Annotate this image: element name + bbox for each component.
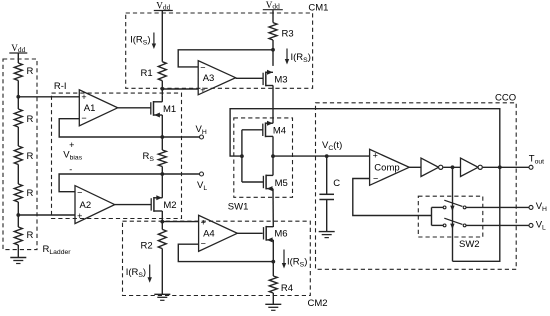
svg-text:Vdd: Vdd	[11, 43, 25, 54]
svg-text:A3: A3	[203, 73, 215, 84]
current arrow I(RS) through M6	[282, 250, 286, 269]
svg-text:+: +	[81, 92, 86, 102]
current arrow I(RS) into R1	[152, 33, 156, 50]
wire Vdd to R3	[272, 10, 274, 23]
svg-text:Comp: Comp	[374, 163, 399, 174]
wire Vdd to R1	[161, 11, 163, 62]
svg-text:R: R	[27, 188, 34, 199]
capacitor C	[319, 156, 340, 232]
transistor M1	[151, 101, 176, 118]
switch SW2b (VL)	[443, 218, 466, 229]
svg-text:+: +	[373, 151, 378, 161]
transistor M5	[263, 175, 287, 192]
op-amp A1	[79, 90, 117, 126]
svg-text:R3: R3	[282, 29, 294, 40]
svg-text:+: +	[77, 211, 82, 221]
wire R3 to M3 drain	[272, 40, 274, 66]
wire R4 to ground	[272, 293, 274, 304]
svg-text:M3: M3	[274, 74, 287, 85]
wire Comp - feedback to SW2 common	[353, 179, 432, 216]
wire ladder R1-R2 with tap node A	[17, 81, 19, 110]
svg-text:M4: M4	[273, 125, 286, 136]
wire M3 source to M4 drain	[272, 85, 274, 123]
wire A4 output to M6 gate	[237, 232, 262, 234]
ground (capacitor)	[319, 232, 335, 238]
terminal Tout	[529, 165, 533, 169]
node capacitor tap	[325, 154, 329, 158]
svg-text:R: R	[27, 151, 34, 162]
svg-text:−: −	[201, 239, 206, 249]
wire M4 source to SW1 output node	[272, 136, 274, 156]
wire M2 drain to VL node	[161, 174, 163, 198]
svg-text:R2: R2	[141, 240, 153, 251]
wire control loop (Tout node to SW1 gates)	[230, 109, 500, 168]
svg-text:CM1: CM1	[308, 2, 328, 13]
svg-text:−: −	[77, 188, 82, 198]
svg-text:R1: R1	[141, 68, 153, 79]
svg-text:I(RS): I(RS)	[287, 257, 307, 269]
svg-text:M1: M1	[163, 104, 176, 115]
comparator Comp	[370, 149, 410, 185]
wire tap1 to A1 + input	[18, 96, 79, 98]
wire VH node to RS	[161, 137, 163, 150]
SW1 dashed box	[234, 118, 293, 197]
svg-text:R-I: R-I	[54, 81, 67, 92]
resistor R1	[141, 62, 167, 81]
op-amp A3	[198, 61, 235, 95]
svg-text:CM2: CM2	[308, 298, 328, 309]
wire A1 output to M1 gate	[118, 107, 151, 109]
wire R2 to ground	[161, 249, 163, 295]
resistor R (ladder 5)	[14, 227, 33, 245]
svg-text:+: +	[200, 85, 205, 95]
resistor R4	[269, 276, 293, 294]
svg-text:SW1: SW1	[228, 202, 249, 213]
svg-text:A1: A1	[84, 103, 96, 114]
svg-text:M6: M6	[274, 229, 287, 240]
wire A2 output to M2 gate	[115, 204, 152, 206]
wire A3 feedback (node to - input)	[178, 50, 273, 67]
svg-text:Vdd: Vdd	[266, 0, 280, 11]
ground (R2)	[154, 294, 170, 300]
transistor M4	[263, 121, 286, 138]
svg-text:−: −	[373, 174, 378, 184]
ground (ladder)	[10, 258, 26, 264]
wire M1 drain stub	[161, 95, 163, 102]
resistor R (ladder 2)	[14, 109, 33, 127]
svg-text:R4: R4	[281, 283, 293, 294]
node R1 bottom / A3 + tap	[160, 87, 164, 91]
transistor M3	[263, 70, 288, 87]
wire M1 source to VH rail	[161, 115, 163, 137]
resistor R (ladder 3)	[14, 146, 33, 165]
CM2 dashed box	[123, 221, 311, 295]
node tap1	[16, 95, 20, 99]
resistor R2	[141, 229, 167, 251]
wire R1 to M1 drain	[161, 81, 163, 96]
wire A2 - feedback from VL rail	[59, 174, 199, 192]
transistor M6	[264, 226, 288, 243]
node inverter junction / SW2 control tap	[451, 165, 455, 169]
node M2 source / A4 + tap	[160, 220, 164, 224]
svg-text:CCO: CCO	[495, 92, 516, 103]
R-I dashed box	[52, 93, 182, 218]
wire control loop bottom	[453, 167, 500, 261]
wire Comp output to inverter 1	[409, 166, 421, 168]
svg-text:I(RS): I(RS)	[130, 35, 150, 47]
wire Vdd to ladder top	[17, 53, 19, 63]
terminal VL (left)	[200, 172, 204, 176]
terminal VH (left)	[200, 135, 204, 139]
wire M6 source down	[272, 240, 274, 276]
wire ladder R4-R5 with tap node B	[17, 202, 19, 227]
node VL / RS bottom	[160, 172, 164, 176]
current arrow I(RS) into M3	[285, 49, 289, 65]
svg-text:C: C	[333, 178, 340, 189]
wire M2 source to R2 node	[161, 211, 163, 229]
svg-text:+: +	[201, 217, 206, 227]
wire A4 - feedback to M6 source node	[178, 244, 273, 261]
svg-text:R: R	[27, 230, 34, 241]
svg-text:+: +	[69, 140, 74, 150]
svg-text:R: R	[27, 114, 34, 125]
wire inverter 1 to inverter 2	[443, 166, 460, 168]
svg-text:I(RS): I(RS)	[291, 52, 311, 64]
resistor RS	[143, 150, 167, 167]
wire SW1 node to M5 drain	[272, 156, 274, 175]
wire RS to VL node	[161, 167, 163, 175]
transistor M2	[151, 195, 176, 212]
wire A3 output to M3 gate	[236, 77, 263, 79]
wire ladder bottom to ground	[17, 245, 19, 258]
op-amp A4	[199, 215, 238, 251]
current arrow I(RS) through R2	[148, 265, 152, 283]
resistor R (ladder 1)	[14, 63, 33, 81]
resistor R3	[269, 23, 294, 40]
svg-text:A4: A4	[203, 229, 215, 240]
wire inverter 2 to Tout terminal	[483, 166, 529, 168]
R ladder dashed box	[3, 59, 37, 250]
svg-text:R: R	[27, 66, 34, 77]
wire SW1 output to Comp + input	[273, 155, 370, 157]
CM1 dashed box	[126, 13, 313, 88]
svg-text:M2: M2	[163, 200, 176, 211]
wire node to A4 + input	[162, 221, 198, 223]
wire SW1 gates (M4-M5 common gate)	[242, 130, 264, 182]
wire control down through SW2	[452, 167, 454, 261]
node SW1 gate control	[240, 154, 244, 158]
switch SW2a (VH)	[443, 200, 466, 211]
wire ladder R2-R3	[17, 127, 19, 146]
svg-text:I(RS): I(RS)	[126, 267, 146, 279]
svg-text:A2: A2	[80, 200, 92, 211]
resistor R (ladder 4)	[14, 184, 33, 202]
node tap2	[16, 213, 20, 217]
inverter U2	[461, 158, 483, 176]
node Tout junction	[498, 165, 502, 169]
inverter U1	[421, 158, 443, 176]
svg-text:Vdd: Vdd	[156, 1, 170, 12]
svg-text:SW2: SW2	[459, 239, 480, 250]
node R3 bottom / A3 - tap	[271, 48, 275, 52]
wire A1 - feedback to VH rail	[59, 119, 199, 137]
svg-text:−: −	[81, 113, 86, 123]
ground (R4)	[265, 304, 281, 310]
CCO dashed box	[316, 103, 517, 269]
wire SW2a to VH terminal	[466, 206, 529, 208]
terminal VH (right)	[529, 205, 533, 209]
wire SW2 common verticals	[432, 207, 444, 225]
node SW1 output	[271, 154, 275, 158]
wire SW2b to VL terminal	[466, 224, 529, 226]
terminal VL (right)	[529, 223, 533, 227]
node VH / RS top	[160, 135, 164, 139]
wire M5 source to M6 drain	[272, 189, 274, 227]
wire node to A3 + input	[162, 88, 198, 90]
wire tap2 to A2 + input	[18, 214, 75, 216]
svg-text:-: -	[69, 165, 72, 175]
node M6 source / R4 top	[271, 260, 275, 264]
wire ladder R3-R4	[17, 165, 19, 185]
SW2 dashed box	[418, 196, 483, 237]
op-amp A2	[75, 186, 115, 224]
svg-text:−: −	[200, 63, 205, 73]
svg-text:M5: M5	[275, 178, 288, 189]
